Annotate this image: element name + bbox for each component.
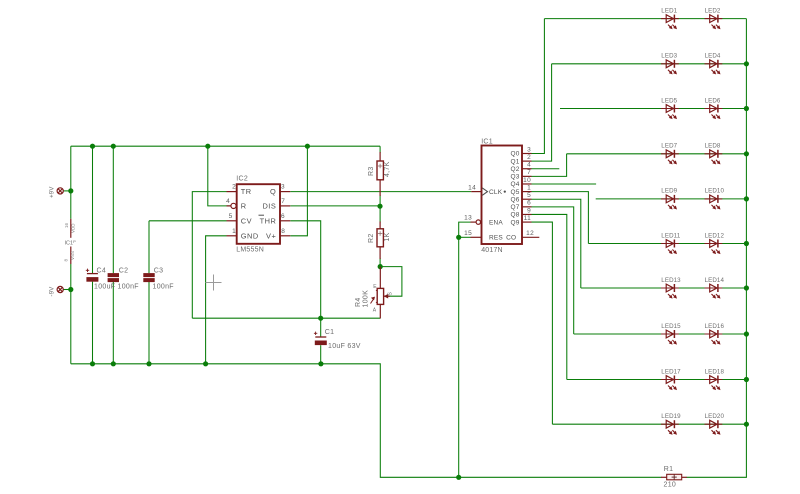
svg-text:LED19: LED19 [661,413,681,420]
svg-text:Q4: Q4 [511,181,520,188]
svg-text:LED12: LED12 [705,232,725,239]
svg-text:LED8: LED8 [705,143,721,150]
svg-text:4,7K: 4,7K [384,161,391,177]
svg-text:14: 14 [468,184,476,191]
svg-text:LED10: LED10 [705,188,725,195]
svg-text:A: A [373,308,377,314]
svg-text:3: 3 [281,184,285,191]
svg-text:R4: R4 [355,297,362,307]
svg-text:TR: TR [241,187,252,196]
svg-text:LED18: LED18 [705,368,725,375]
svg-text:8: 8 [281,228,285,235]
svg-text:E: E [373,284,377,290]
svg-text:LED9: LED9 [661,188,677,195]
svg-text:GND: GND [241,231,259,240]
svg-text:+9V: +9V [50,186,56,197]
svg-text:LED5: LED5 [661,97,677,104]
svg-text:IC2: IC2 [236,175,248,182]
svg-text:Q0: Q0 [511,151,520,158]
svg-text:C2: C2 [119,268,129,275]
svg-text:Q1: Q1 [511,158,520,165]
svg-text:S: S [388,292,394,296]
svg-text:1: 1 [232,228,236,235]
svg-text:LED13: LED13 [661,277,681,284]
svg-text:4017N: 4017N [481,247,503,254]
svg-text:Q: Q [270,187,276,196]
svg-text:LED3: LED3 [661,53,677,60]
svg-text:13: 13 [464,215,472,222]
svg-text:Q2: Q2 [511,166,520,173]
svg-text:12: 12 [526,230,534,237]
svg-text:LED17: LED17 [661,368,681,375]
svg-text:11: 11 [524,215,531,222]
svg-text:2: 2 [232,184,236,191]
svg-text:LED2: LED2 [705,7,721,14]
svg-text:2: 2 [527,154,531,161]
svg-text:-9V: -9V [50,287,56,297]
svg-text:LM555N: LM555N [236,247,264,254]
svg-text:1K: 1K [384,232,391,241]
svg-text:7: 7 [281,198,285,205]
svg-text:THR: THR [260,216,277,225]
svg-text:4: 4 [226,198,230,205]
svg-text:R3: R3 [368,166,375,176]
svg-text:LED6: LED6 [705,97,721,104]
svg-text:Q3: Q3 [511,174,520,181]
svg-text:100nF: 100nF [118,284,139,291]
svg-text:LED20: LED20 [705,413,725,420]
svg-text:VDD: VDD [71,223,76,233]
svg-text:3: 3 [527,146,531,153]
svg-text:10: 10 [523,177,531,184]
svg-text:CO: CO [506,235,516,242]
svg-text:9: 9 [527,207,531,214]
svg-text:CLK: CLK [489,189,503,196]
svg-text:Q5: Q5 [511,189,520,196]
svg-text:1: 1 [527,184,531,191]
svg-text:C4: C4 [97,268,107,275]
svg-text:LED11: LED11 [661,232,680,239]
svg-text:Q6: Q6 [511,196,520,203]
svg-text:R2: R2 [368,233,375,243]
svg-text:210: 210 [664,482,677,489]
svg-text:6: 6 [281,213,285,220]
svg-text:LED7: LED7 [661,143,677,150]
svg-text:4: 4 [527,162,531,169]
svg-text:IC1: IC1 [481,138,493,145]
svg-text:V+: V+ [266,231,276,240]
svg-text:LED15: LED15 [661,323,681,330]
svg-text:RES: RES [489,235,503,242]
svg-text:100uF: 100uF [94,284,115,291]
svg-text:VSS: VSS [70,251,75,260]
svg-text:16: 16 [64,222,69,228]
svg-text:5: 5 [229,213,233,220]
svg-text:5: 5 [527,192,531,199]
svg-text:10uF 63V: 10uF 63V [328,343,361,350]
svg-text:100K: 100K [363,290,370,308]
svg-text:15: 15 [464,230,472,237]
svg-text:LED16: LED16 [705,323,725,330]
svg-text:7: 7 [527,169,531,176]
svg-text:6: 6 [527,200,531,207]
svg-text:LED4: LED4 [705,53,721,60]
svg-text:Q7: Q7 [511,204,520,211]
svg-text:ENA: ENA [489,220,503,227]
svg-text:100nF: 100nF [153,284,174,291]
svg-text:DIS: DIS [262,202,276,211]
svg-text:R1: R1 [664,466,674,473]
svg-text:Q9: Q9 [511,219,520,226]
svg-text:CV: CV [241,216,252,225]
svg-text:R: R [241,202,247,211]
svg-text:LED14: LED14 [705,277,725,284]
svg-text:Q8: Q8 [511,212,520,219]
svg-text:C3: C3 [154,268,164,275]
svg-text:C1: C1 [325,329,335,336]
svg-text:LED1: LED1 [661,7,677,14]
